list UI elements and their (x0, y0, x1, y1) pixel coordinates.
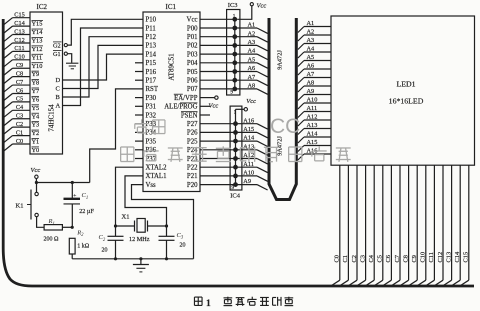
wire C12 (decoder output Y12 to column bus) (4, 43, 30, 50)
svg-text:C10: C10 (420, 252, 427, 263)
wire RST net (staircase to RST pin) (90, 89, 143, 183)
svg-text:A1: A1 (248, 22, 256, 29)
pin label RST (146, 86, 159, 93)
wire C7 (decoder output Y7 to column bus) (4, 85, 30, 92)
wire P02 to IC3 (200, 44, 235, 46)
crystal X1 12MHz (116, 213, 167, 243)
pin label P31 (146, 104, 157, 111)
wire column C3 (LED pin to bus) (357, 165, 366, 286)
net label C11 (428, 252, 435, 262)
svg-text:C5: C5 (16, 96, 23, 103)
wire B to IC1 (63, 37, 144, 97)
svg-text:Y2: Y2 (32, 130, 40, 137)
wire A4 (row drive) (235, 54, 268, 59)
pin label Y14 / C14 (14, 20, 43, 36)
junction dot IC4 row 3 (233, 139, 238, 144)
net label A1 (248, 22, 256, 29)
net label C15 (463, 252, 470, 263)
wire analog ground rail (72, 257, 193, 260)
pin label P20 (187, 182, 198, 189)
svg-text:Y0: Y0 (32, 147, 40, 154)
svg-text:P07: P07 (187, 86, 198, 93)
wire column C12 (LED pin to bus) (434, 165, 443, 286)
wire column C9 (LED pin to bus) (408, 165, 417, 286)
svg-text:C12: C12 (437, 252, 444, 263)
wire XTAL1 net (125, 176, 168, 228)
svg-text:C1: C1 (16, 129, 23, 136)
wire C2 (decoder output Y2 to column bus) (4, 127, 30, 134)
svg-text:C3: C3 (359, 255, 366, 262)
svg-text:Y11: Y11 (32, 54, 43, 61)
net label C2 (351, 255, 358, 262)
svg-text:200 Ω: 200 Ω (44, 236, 60, 242)
wire A9 (row drive) (236, 185, 268, 190)
pin label P33 (146, 121, 157, 128)
svg-text:IC4: IC4 (230, 192, 241, 199)
wire C1 (decoder output Y1 to column bus) (4, 136, 30, 143)
svg-text:C11: C11 (428, 252, 435, 262)
pin stub P37 (135, 158, 143, 160)
net label C3 (359, 255, 366, 262)
pin label Vss (146, 182, 157, 189)
pin label Y8 / C8 (16, 70, 39, 86)
pin label Y10 / C10 (14, 54, 43, 70)
svg-text:Vss: Vss (146, 182, 157, 189)
pin stub P35 (135, 140, 143, 142)
wire P25 to IC4 (200, 140, 236, 142)
wire A5 (row drive) (235, 63, 268, 68)
svg-text:Vcc: Vcc (187, 17, 198, 24)
svg-text:IC2: IC2 (37, 3, 48, 11)
svg-text:A8: A8 (307, 80, 315, 87)
svg-text:A10: A10 (243, 170, 254, 177)
pin label P26 (187, 130, 198, 137)
wire column C6 (LED pin to bus) (382, 165, 391, 286)
net label C9 (411, 255, 418, 262)
wire P20 to IC4 (200, 184, 236, 186)
wire column C0 (LED pin to bus) (331, 165, 340, 286)
pin label Y2 / C2 (16, 121, 39, 137)
junction dot IC3 pin 8 (232, 26, 237, 31)
pin label P15 (146, 60, 157, 67)
net label A15 (243, 126, 254, 133)
wire Vcc to IC4 common (236, 108, 245, 110)
pin label B (decoder input) (56, 94, 61, 101)
svg-text:C: C (56, 86, 60, 93)
net label A13 (243, 143, 254, 150)
net label A2 (LED side) (307, 29, 315, 36)
wire P00 to IC3 (200, 27, 235, 29)
wire A16 to LED row (298, 154, 331, 160)
svg-text:A7: A7 (248, 74, 256, 81)
svg-text:C3: C3 (16, 113, 23, 120)
wire EA/VPP to Vcc (200, 97, 215, 99)
junction dot IC4 row 7 (233, 174, 238, 179)
svg-text:P06: P06 (187, 78, 198, 85)
svg-text:1: 1 (206, 299, 211, 309)
wire A10 to LED row (298, 103, 331, 109)
pin stub P16 (135, 71, 143, 73)
svg-text:P30: P30 (146, 95, 157, 102)
svg-text:XTAL2: XTAL2 (146, 165, 168, 172)
wire column C7 (LED pin to bus) (391, 165, 400, 286)
pin label Y9 / C9 (16, 62, 39, 78)
microcontroller IC1 AT89C51 (143, 3, 200, 192)
net label C7 (394, 254, 401, 262)
junction dot IC3 common (232, 17, 237, 22)
svg-text:P15: P15 (146, 60, 157, 67)
svg-text:C7: C7 (394, 254, 401, 262)
pin label P13 (146, 43, 157, 50)
wire P04 to IC3 (200, 62, 235, 64)
capacitor C1 22uF (64, 183, 95, 228)
svg-text:ALE/PROG: ALE/PROG (164, 104, 197, 111)
net label A4 (248, 48, 257, 55)
junction dot IC4 row 8 (233, 182, 238, 187)
wire C9 (decoder output Y9 to column bus) (4, 68, 30, 75)
pin label P23 (187, 156, 198, 163)
svg-text:22 µF: 22 µF (79, 208, 94, 215)
svg-text:P12: P12 (146, 34, 157, 41)
svg-text:C14: C14 (454, 251, 461, 262)
wire C14 (decoder output Y14 to column bus) (4, 26, 30, 33)
svg-text:A1: A1 (307, 20, 315, 27)
svg-text:C9: C9 (411, 255, 418, 262)
Vcc terminal (EA/VPP pull-up) (209, 96, 219, 109)
decoder IC2 74HC154 (30, 3, 63, 154)
net label A5 (248, 56, 256, 63)
wire A15 to LED row (298, 146, 331, 152)
resistor network IC4 9A472J (230, 106, 242, 199)
net label C5 (377, 255, 384, 262)
net label C6 (385, 255, 392, 262)
svg-text:PSEN: PSEN (181, 112, 198, 119)
wire A4 to LED row (298, 52, 331, 58)
pin stub P30 (135, 97, 143, 99)
net label A14 (LED side) (307, 131, 319, 138)
net label A16 (243, 117, 254, 124)
wire A8 to LED row (298, 86, 331, 92)
wire Vss to ground (132, 185, 194, 259)
svg-text:A8: A8 (248, 83, 256, 90)
svg-text:K1: K1 (16, 202, 24, 209)
pin label D (decoder input) (56, 77, 61, 84)
Vcc terminal (IC4 common) (244, 98, 256, 111)
wire column C5 (LED pin to bus) (374, 165, 383, 286)
wire P07 to IC3 (200, 88, 235, 90)
svg-text:A3: A3 (307, 37, 315, 44)
wire column C11 (LED pin to bus) (425, 165, 434, 286)
svg-text:A7: A7 (307, 71, 315, 78)
svg-text:C4: C4 (16, 104, 24, 111)
svg-text:CC: CC (270, 115, 300, 138)
junction dot IC3 pin 3 (232, 69, 237, 74)
net label A14 (243, 135, 255, 142)
pin label P22 (187, 165, 198, 172)
svg-text:C6: C6 (385, 255, 392, 262)
ground (oscillator) (133, 259, 149, 272)
svg-text:Vcc: Vcc (246, 98, 256, 105)
pin label P11 (146, 25, 156, 32)
pin stub P17 (135, 79, 143, 81)
wire A6 (row drive) (235, 72, 268, 77)
wire R1 to node (62, 226, 73, 229)
svg-text:P32: P32 (146, 112, 157, 119)
svg-text:EA/VPP: EA/VPP (174, 95, 198, 102)
pin label XTAL2 (146, 165, 168, 172)
svg-text:A13: A13 (307, 122, 318, 129)
svg-text:C2: C2 (16, 121, 23, 128)
svg-text:9A472J: 9A472J (277, 136, 284, 156)
wire C10 (decoder output Y10 to column bus) (4, 60, 30, 67)
pin label P27 (187, 121, 198, 128)
svg-text:A2: A2 (307, 29, 315, 36)
pin label P02 (187, 43, 198, 50)
svg-text:A15: A15 (243, 126, 254, 133)
pin label ALE/PROG (164, 103, 197, 111)
svg-text:P04: P04 (187, 60, 198, 67)
net label A4 (LED side) (307, 46, 316, 53)
resistor network IC3 9A472J (227, 2, 240, 96)
wire P22 to IC4 (200, 166, 236, 168)
pin label P16 (146, 69, 157, 76)
net label A13 (LED side) (307, 122, 318, 129)
wire column C14 (LED pin to bus) (451, 165, 460, 286)
wire Vcc to IC3 (200, 18, 235, 20)
svg-text:1 kΩ: 1 kΩ (77, 243, 90, 249)
svg-text:A9: A9 (307, 88, 315, 95)
pin label Y6 / C6 (16, 87, 39, 103)
wire Vcc to IC3 common (237, 6, 252, 19)
junction dot IC3 pin 6 (232, 43, 237, 48)
net label C1 (342, 255, 349, 262)
pin label P34 (146, 130, 157, 137)
svg-text:12 MHz: 12 MHz (129, 236, 150, 243)
net label A5 (LED side) (307, 54, 315, 61)
svg-text:C0: C0 (16, 138, 23, 145)
svg-text:C8: C8 (16, 70, 23, 77)
net label A8 (LED side) (307, 80, 315, 87)
wire A13 to LED row (298, 129, 331, 135)
wire P06 to IC3 (200, 79, 235, 81)
pin label P24 (187, 147, 198, 154)
pin label Vcc (187, 17, 198, 24)
pin label Y15 / C15 (14, 12, 43, 28)
pin label P03 (187, 51, 198, 58)
junction dot IC3 pin 4 (232, 60, 237, 65)
svg-text:D: D (56, 77, 61, 84)
wire C11 (decoder output Y11 to column bus) (4, 51, 30, 58)
wire A14 to LED row (298, 137, 331, 143)
svg-text:P02: P02 (187, 43, 198, 50)
svg-text:A6: A6 (248, 65, 256, 72)
label 9A472J (IC3 value) (277, 50, 284, 70)
capacitor C2 20pF (99, 226, 124, 259)
pin stub ALE/PROG (200, 105, 210, 107)
wire A9 to LED row (298, 95, 331, 101)
svg-text:Y5: Y5 (32, 105, 40, 112)
net label A11 (LED side) (307, 105, 318, 112)
svg-text:C15: C15 (14, 12, 25, 19)
junction dot IC3 pin 7 (232, 34, 237, 39)
svg-text:A5: A5 (248, 56, 256, 63)
net label A16 (LED side) (307, 148, 318, 155)
svg-text:Y14: Y14 (32, 29, 44, 36)
svg-text:C8: C8 (402, 255, 409, 262)
net label A12 (LED side) (307, 114, 318, 121)
wire A8 (row drive) (235, 89, 268, 94)
net label A3 (248, 39, 256, 46)
net label C13 (445, 252, 452, 263)
wire D to IC1 (63, 54, 144, 80)
wire column C10 (LED pin to bus) (417, 165, 426, 286)
svg-text:X1: X1 (122, 213, 130, 220)
svg-text:C13: C13 (445, 252, 452, 263)
junction dot IC3 pin 5 (232, 52, 237, 57)
net label C14 (454, 251, 461, 262)
junction dot IC4 row 1 (233, 121, 238, 126)
wire K1 to R1 (37, 217, 45, 228)
junction dot IC3 pin 2 (232, 78, 237, 83)
net label A8 (248, 83, 256, 90)
svg-text:AT89C51: AT89C51 (168, 53, 176, 81)
wire C15 (decoder output Y15 to column bus) (4, 18, 30, 25)
svg-text:IC3: IC3 (228, 2, 238, 9)
svg-text:A9: A9 (243, 178, 251, 185)
svg-text:IC1: IC1 (166, 3, 177, 11)
net label C0 (334, 255, 341, 262)
pin label Y1 / C1 (16, 129, 39, 145)
svg-text:A14: A14 (243, 135, 255, 142)
wire C13 (decoder output Y13 to column bus) (4, 35, 30, 42)
svg-text:Y1: Y1 (32, 139, 40, 146)
net label A1 (LED side) (307, 20, 315, 27)
pin label P07 (187, 86, 198, 93)
net label A3 (LED side) (307, 37, 315, 44)
svg-text:P14: P14 (146, 51, 157, 58)
pin G2 (inverted enable, bubble) (53, 42, 67, 49)
svg-text:A11: A11 (243, 161, 254, 168)
svg-text:A16: A16 (243, 117, 254, 124)
pin stub P36 (135, 149, 143, 151)
pin label P35 (146, 138, 157, 145)
pushbutton K1 (reset) (16, 183, 39, 220)
Vcc terminal (IC3 common) (250, 3, 266, 10)
wire column C2 (LED pin to bus) (348, 165, 357, 286)
svg-text:C14: C14 (14, 20, 25, 27)
pin label P10 (146, 17, 157, 24)
wire A14 (row drive) (236, 141, 268, 146)
pin G1 (inverted enable, bubble) (53, 51, 67, 58)
pin stub P15 (135, 62, 143, 64)
svg-text:16*16LED: 16*16LED (389, 97, 424, 106)
net label A7 (LED side) (307, 71, 315, 78)
watermark text (121, 115, 351, 162)
wire C4 (decoder output Y4 to column bus) (4, 110, 30, 117)
wire column C8 (LED pin to bus) (400, 165, 409, 286)
svg-text:A: A (56, 103, 61, 110)
wire A13 (row drive) (236, 150, 268, 155)
wire A to IC1 (63, 28, 144, 106)
svg-text:P27: P27 (187, 121, 198, 128)
pin label P32 (146, 112, 157, 119)
svg-text:20: 20 (102, 248, 108, 254)
pin stub P34 (135, 131, 143, 133)
svg-text:A5: A5 (307, 54, 315, 61)
wire P27 to IC4 (200, 123, 236, 125)
pin label Y11 / C11 (14, 45, 43, 61)
svg-text:C5: C5 (377, 255, 384, 262)
svg-text:A2: A2 (248, 30, 256, 37)
svg-text:P13: P13 (146, 43, 157, 50)
wire G2 to P10 (67, 19, 143, 45)
svg-text:Y15: Y15 (32, 21, 43, 28)
net label A10 (LED side) (307, 97, 318, 104)
net label A12 (243, 152, 254, 159)
junction dot IC4 row 5 (233, 156, 238, 161)
wire A5 to LED row (298, 61, 331, 67)
net label A2 (248, 30, 256, 37)
svg-text:74HC154: 74HC154 (48, 104, 56, 132)
wire A11 (row drive) (236, 167, 268, 172)
capacitor C3 20pF (159, 226, 186, 259)
svg-text:C12: C12 (14, 37, 25, 44)
LED matrix LED1 16*16 (331, 16, 475, 165)
pin label A (decoder input) (56, 103, 61, 110)
net label A11 (243, 161, 254, 168)
wire A3 (row drive) (235, 45, 268, 50)
svg-text:C13: C13 (14, 28, 25, 35)
svg-text:C4: C4 (368, 254, 375, 262)
svg-text:A15: A15 (307, 139, 318, 146)
svg-text:P00: P00 (187, 25, 198, 32)
svg-text:C2: C2 (351, 255, 358, 262)
svg-text:Y8: Y8 (32, 80, 40, 87)
svg-text:P01: P01 (187, 34, 198, 41)
wire A1 to LED row (298, 27, 331, 33)
wire Vcc to RST rail (35, 179, 90, 185)
svg-text:P22: P22 (187, 165, 198, 172)
pin label Y13 / C13 (14, 28, 43, 44)
svg-text:C0: C0 (334, 255, 341, 262)
pin stub PSEN (200, 114, 210, 116)
junction dot IC4 row 4 (233, 147, 238, 152)
svg-text:Y12: Y12 (32, 46, 43, 53)
pin label Y5 / C5 (16, 96, 39, 112)
wire A15 (row drive) (236, 132, 268, 137)
net label A7 (248, 74, 256, 81)
wire A11 to LED row (298, 112, 331, 118)
pin label P30 (146, 95, 157, 102)
svg-text:P26: P26 (187, 130, 198, 137)
svg-text:P17: P17 (146, 78, 157, 85)
svg-text:A14: A14 (307, 131, 319, 138)
junction dot IC4 row 6 (233, 165, 238, 170)
net label A6 (248, 65, 256, 72)
pin label XTAL1 (146, 173, 167, 180)
pin stub P31 (135, 105, 143, 107)
pin label P17 (146, 78, 157, 85)
wire A3 to LED row (298, 44, 331, 50)
wire A10 (row drive) (236, 176, 268, 181)
svg-text:G2: G2 (53, 42, 61, 49)
pin label P00 (187, 25, 198, 32)
wire A1 (row drive) (235, 28, 268, 33)
wire A7 to LED row (298, 78, 331, 84)
pin label P25 (187, 138, 198, 145)
wire G1 to ground (67, 54, 71, 63)
wire row-bus cable (U bundle) (269, 18, 296, 200)
